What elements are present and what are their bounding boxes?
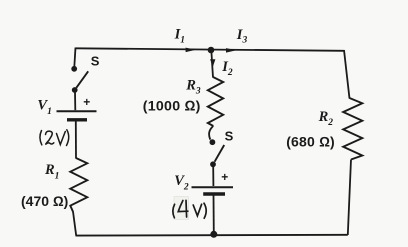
value label (1000 ohm) (143, 98, 201, 114)
plus sign of V2 (221, 170, 228, 184)
label R2 (318, 109, 334, 128)
svg-text:(1000 Ω): (1000 Ω) (143, 98, 201, 114)
battery V2 positive long plate (192, 186, 234, 188)
resistor R2 zigzag (343, 98, 362, 160)
wire switch to battery V1 (74, 92, 76, 111)
battery V1 negative short plate (67, 118, 87, 121)
erase mark behind 4 (174, 197, 189, 220)
switch S2 upper terminal (210, 139, 216, 145)
wire left top vertical into switch (74, 48, 75, 68)
wire bottom from left corner to right corner (76, 234, 348, 237)
node top junction dot (208, 47, 215, 54)
value label (680 ohm) (286, 134, 335, 150)
resistor R1 zigzag (70, 158, 87, 212)
current I2 arrowhead (210, 59, 215, 67)
switch S1 upper terminal (71, 66, 77, 72)
label R1 (44, 162, 59, 181)
svg-text:+: + (221, 170, 228, 184)
wire R2 to bottom right corner (348, 160, 351, 236)
svg-text:+: + (83, 95, 90, 109)
current I1 arrowhead (186, 48, 196, 53)
plus sign of V1 (83, 95, 90, 109)
value label (470 ohm) (21, 193, 68, 209)
label S (middle switch) (225, 129, 234, 144)
svg-text:S: S (225, 129, 234, 144)
wire battery V2 to bottom node (213, 195, 215, 234)
label V1 (37, 98, 51, 118)
node bottom junction dot (210, 231, 217, 238)
svg-text:S: S (91, 54, 100, 69)
wire node to R3 (211, 50, 213, 78)
svg-text:(680 Ω): (680 Ω) (286, 134, 335, 150)
switch S2 lower terminal (210, 161, 216, 167)
label R3 (185, 77, 201, 96)
wire top from left corner to right corner (76, 48, 345, 51)
label I3 (236, 27, 248, 46)
label I2 (221, 59, 233, 78)
wire R1 to bottom left corner (73, 212, 76, 236)
label S (left switch) (91, 54, 100, 69)
wire battery V1 to resistor R1 (75, 121, 77, 159)
battery V1 positive long plate (57, 110, 97, 112)
value label (4 V) handwritten (173, 200, 206, 218)
current I3 arrowhead (226, 48, 236, 53)
label V2 (174, 173, 189, 193)
switch S2 blade (215, 145, 225, 162)
label I1 (174, 27, 185, 46)
battery V2 negative short plate (203, 192, 225, 195)
switch S1 blade (76, 71, 88, 88)
wire R3 to switch S2 (209, 126, 213, 140)
value label (2V) handwritten (40, 130, 69, 146)
switch S1 lower terminal (72, 87, 78, 93)
wire right top vertical to R2 (344, 50, 350, 99)
resistor R3 zigzag (208, 77, 223, 126)
svg-text:(470 Ω): (470 Ω) (21, 193, 68, 209)
wire switch S2 to battery V2 (212, 166, 214, 186)
